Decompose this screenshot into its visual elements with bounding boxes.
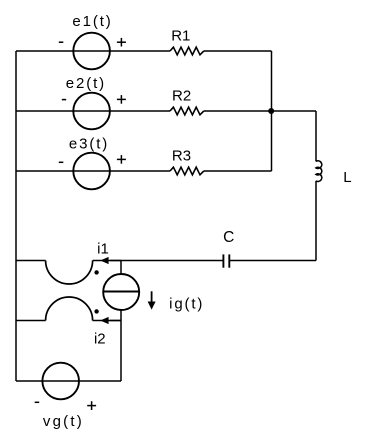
svg-text:e3(t): e3(t) <box>69 136 109 153</box>
wire: e1 row <box>16 50 170 52</box>
capacitor C <box>223 254 229 267</box>
coupled inductor i2 (bottom coil, bumps up) <box>46 297 93 321</box>
wire: C row left segment <box>93 260 224 262</box>
wire: left vertical bus <box>15 51 17 381</box>
label plus vg <box>87 401 96 410</box>
svg-text:L: L <box>343 169 351 186</box>
coupling dot bottom <box>94 309 98 313</box>
svg-text:C: C <box>223 229 234 246</box>
coupling dot top <box>94 270 98 274</box>
wire: e3 row <box>16 170 170 172</box>
wire: vertical into ig top <box>120 261 122 275</box>
node junction dot <box>268 108 274 114</box>
voltage source vg <box>42 363 79 400</box>
wire: i1 row left <box>16 260 46 262</box>
svg-text:e2(t): e2(t) <box>66 75 106 92</box>
wire: far right vertical upper (to inductor) <box>315 111 317 161</box>
wire: R2 to node and branch to far-right vertical <box>204 110 316 112</box>
current source ig <box>103 274 139 310</box>
voltage source e3 <box>73 153 110 190</box>
label plus e2 <box>117 95 126 104</box>
resistor R1 <box>170 47 204 55</box>
voltage source e2 <box>73 93 110 130</box>
wire: i2 row left <box>16 320 46 322</box>
wire: right bus vertical (R1..R3 tie) <box>271 51 273 171</box>
svg-text:ig(t): ig(t) <box>169 296 204 313</box>
coupled inductor i1 (top coil, dips down) <box>46 261 93 285</box>
resistor R2 <box>170 107 204 115</box>
wire: far right vertical lower <box>315 181 317 261</box>
svg-text:e1(t): e1(t) <box>72 13 112 30</box>
svg-text:i1: i1 <box>97 240 109 257</box>
current direction arrow for ig <box>151 291 153 302</box>
svg-text:i2: i2 <box>94 330 106 347</box>
label minus e2 <box>62 99 66 101</box>
current arrow i1 <box>100 257 108 264</box>
inductor L <box>316 161 322 182</box>
resistor R3 <box>170 167 204 175</box>
wire: right vertical down to vg row <box>120 321 122 382</box>
svg-text:R1: R1 <box>171 28 190 45</box>
wire: C row right segment <box>229 260 316 262</box>
voltage source e1 <box>73 33 110 70</box>
wire: ig bottom to i2 row <box>120 310 122 321</box>
svg-text:R3: R3 <box>172 148 191 165</box>
label plus e1 <box>117 38 126 47</box>
wire: i2 row right to corner <box>93 320 121 322</box>
label minus e1 <box>59 41 64 43</box>
wire: R3 to right bus <box>204 170 272 172</box>
label plus e3 <box>117 155 126 164</box>
wire: vg row <box>16 380 121 382</box>
label minus vg <box>35 401 40 403</box>
svg-text:R2: R2 <box>172 87 191 104</box>
label minus e3 <box>59 161 64 163</box>
wire: e2 row <box>16 110 170 112</box>
wire: R1 to right bus <box>204 50 272 52</box>
svg-text:vg(t): vg(t) <box>43 413 84 430</box>
current arrow i2 <box>100 317 108 324</box>
